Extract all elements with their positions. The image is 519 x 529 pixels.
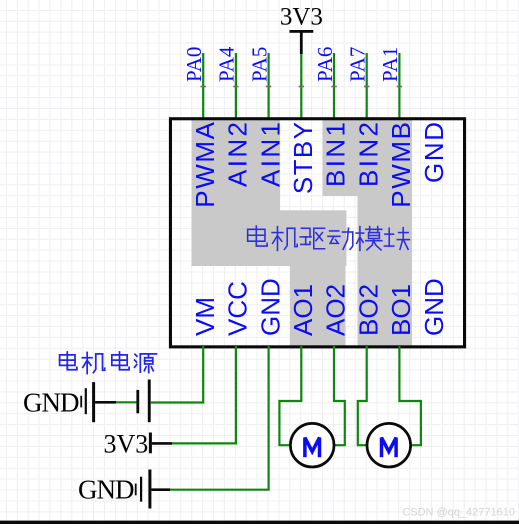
wire 3V3 to STBY pin — [300, 33, 303, 55]
svg-text:AIN1: AIN1 — [255, 120, 285, 187]
pin end marker BIN2 — [364, 86, 369, 88]
wire PA1 to PWMB pin — [398, 53, 400, 120]
svg-text:PA4: PA4 — [215, 46, 239, 82]
ground symbol (GND pin) — [136, 470, 171, 509]
svg-text:VM: VM — [190, 297, 220, 336]
motor M2 — [367, 423, 411, 467]
sheet border — [0, 521, 519, 524]
svg-text:3V3: 3V3 — [280, 4, 323, 31]
svg-text:PA6: PA6 — [313, 47, 337, 82]
pin end marker AIN2 — [233, 86, 238, 88]
chip U1 outline — [170, 119, 464, 347]
pin end marker STBY — [299, 86, 304, 88]
svg-text:3V3: 3V3 — [104, 429, 149, 458]
svg-text:AO1: AO1 — [288, 284, 318, 336]
svg-text:AIN2: AIN2 — [223, 120, 253, 187]
wire PA5 to AIN1 pin — [268, 53, 270, 120]
svg-text:GND: GND — [23, 388, 79, 418]
svg-text:GND: GND — [78, 475, 134, 505]
svg-text:PA0: PA0 — [182, 47, 206, 82]
part label 电机驱动模块 (motor drive module) — [248, 226, 267, 246]
wire VM to battery — [151, 346, 203, 403]
wire VCC to 3V3 — [172, 346, 236, 443]
wire PA6 to BIN1 pin — [333, 53, 335, 120]
ground symbol (VM battery side) — [81, 382, 116, 422]
power symbol 3V3 (left) — [149, 433, 152, 454]
svg-text:BIN2: BIN2 — [353, 120, 383, 187]
svg-text:AO2: AO2 — [321, 284, 351, 336]
svg-text:PA1: PA1 — [378, 47, 402, 82]
svg-text:GND: GND — [419, 278, 449, 336]
wire AO2 to motor M1 — [334, 346, 345, 445]
svg-text:PA5: PA5 — [247, 47, 271, 82]
svg-text:GND: GND — [419, 120, 449, 183]
svg-text:PA7: PA7 — [346, 47, 370, 82]
chip U1 gray body fill — [192, 120, 412, 346]
wire PA0 to PWMA pin — [202, 53, 204, 120]
wire BO2 to motor M2 — [358, 346, 367, 445]
svg-text:CSDN @qq_42771610: CSDN @qq_42771610 — [402, 507, 515, 519]
pin end marker PWMB — [397, 86, 402, 88]
wire GND pin to ground — [170, 346, 268, 490]
motor M1 — [290, 423, 334, 467]
pin end marker AIN1 — [266, 86, 271, 88]
pin end marker PWMA — [201, 86, 206, 88]
battery BT1 (motor power) — [116, 401, 137, 403]
svg-text:BIN1: BIN1 — [321, 120, 351, 187]
svg-text:VCC: VCC — [223, 281, 253, 336]
wire BO1 to motor M2 — [399, 346, 421, 445]
power symbol 3V3 (top) — [290, 30, 314, 33]
svg-text:GND: GND — [255, 278, 285, 336]
wire AO1 to motor M1 — [279, 346, 301, 445]
pin end marker BIN1 — [331, 86, 336, 88]
svg-text:PWMB: PWMB — [386, 120, 416, 207]
wire PA7 to BIN2 pin — [366, 53, 368, 120]
svg-text:BO1: BO1 — [386, 284, 416, 336]
net label 电机电源 (motor power) — [60, 352, 77, 370]
svg-text:BO2: BO2 — [353, 284, 383, 336]
svg-text:STBY: STBY — [288, 121, 318, 195]
wire PA4 to AIN2 pin — [235, 53, 237, 120]
svg-text:PWMA: PWMA — [190, 120, 220, 207]
